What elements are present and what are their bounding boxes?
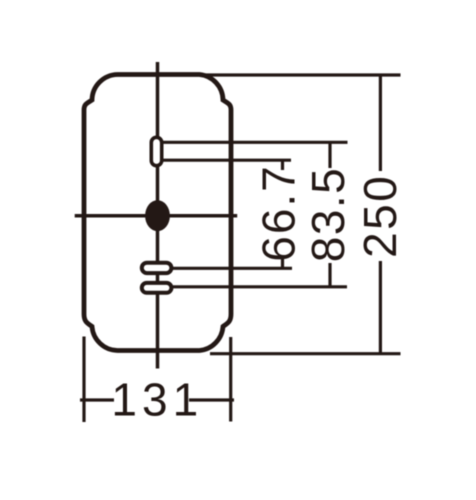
extension line B (66.7 top, from capsule) [162,159,291,162]
131 right extension line [229,337,232,422]
svg-text:83.5: 83.5 [302,167,354,263]
svg-text:250: 250 [354,174,406,258]
dimension line 66.7 (two segments) [281,160,284,170]
horizontal center line [75,214,238,218]
terminal stadium 2 (lower) [142,283,172,293]
top extension line (250) [199,73,401,76]
dimension line 131 (two segments) [80,398,114,401]
bottom extension line (250) [210,352,401,355]
extension line from stadium 2 (83.5 bottom) [173,285,347,288]
mounting capsule (top) [151,137,161,165]
vertical center line [156,62,160,369]
svg-text:66.7: 66.7 [253,164,305,262]
131 left extension line [82,337,85,423]
center knob (filled ellipse) [145,200,170,231]
terminal stadium 1 (upper) [142,263,172,273]
extension line from stadium 1 (66.7 bottom) [173,267,292,270]
svg-text:131: 131 [111,374,203,426]
dimension line 83.5 (two segments) [328,142,331,168]
fixture body outline [84,75,231,351]
extension line A (83.5 top, from capsule) [162,141,348,144]
dimension line 250 (two segments) [379,75,382,171]
